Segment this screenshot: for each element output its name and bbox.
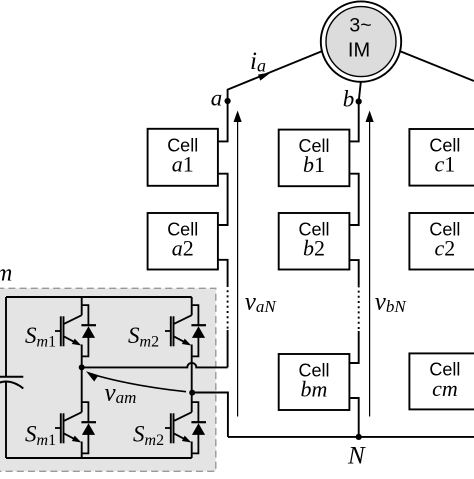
dc rail bottom: [6, 457, 192, 459]
wire b: dotted end to cell bm top: [349, 331, 358, 363]
svg-text:c2: c2: [435, 236, 456, 261]
cell c1: [409, 129, 474, 186]
svg-text:N: N: [347, 443, 366, 470]
arrow v_bN: [366, 111, 374, 417]
wire b: cell b2 bottom, solid: [349, 260, 358, 285]
transistor S_m2 top-right: [165, 305, 206, 356]
cell zoom gray box (Cell am detail): [0, 288, 216, 471]
cell b1: [279, 130, 350, 187]
node: right leg midpoint: [189, 390, 195, 396]
dotted continuation b: [358, 285, 360, 331]
wire b: cell b1 bottom to cell b2 top: [349, 174, 358, 225]
svg-text:a2: a2: [172, 236, 194, 261]
svg-text:b2: b2: [303, 236, 325, 261]
cell cm: [409, 353, 474, 409]
dc rail top: [6, 296, 192, 298]
cell a1: [148, 129, 218, 186]
node N: [356, 434, 362, 440]
svg-text:c1: c1: [435, 152, 456, 177]
svg-text:cm: cm: [432, 376, 458, 401]
right leg verticals: [191, 297, 193, 458]
motor U1: 3-phase induction machine: [321, 1, 401, 81]
dotted continuation a: [227, 285, 229, 330]
wire a: cell a2 bottom, solid then dotted: [218, 260, 228, 285]
wire b: cell bm bottom to node N: [349, 398, 358, 437]
bus wire to node N: [228, 436, 474, 438]
wire b: node b to cell b1 top: [349, 102, 358, 142]
wire a: dotted end down to cell am output: [227, 330, 229, 367]
v_am curved arrow: [86, 371, 186, 391]
svg-text:b1: b1: [303, 152, 325, 177]
wire: lower output to bus: [192, 393, 228, 437]
arrow v_aN: [234, 111, 242, 417]
transistor S_m1 bottom-left: [55, 402, 96, 453]
cell bm: [279, 354, 350, 410]
svg-text:a1: a1: [172, 152, 194, 177]
wire: motor to node b (phase b): [359, 82, 361, 102]
cell a2: [148, 213, 218, 270]
svg-text:IM: IM: [348, 39, 370, 61]
wire: motor to node a (phase a): [228, 51, 322, 100]
transistor S_m2 bottom-right: [165, 402, 206, 453]
svg-text:a: a: [211, 85, 223, 110]
current arrow i_a head: [258, 72, 271, 80]
svg-text:3~: 3~: [349, 14, 371, 36]
svg-text:m: m: [0, 260, 12, 286]
wire a: cell a1 bottom to cell a2 top: [218, 174, 228, 225]
wire: upper output with hop over right leg, to chain a: [82, 363, 228, 367]
cell c2: [409, 213, 474, 270]
cell b2: [279, 213, 350, 270]
left leg verticals: [81, 297, 83, 458]
transistor S_m1 top-left: [55, 305, 96, 356]
svg-text:bm: bm: [301, 377, 328, 402]
svg-text:b: b: [343, 87, 355, 112]
node b: [356, 98, 362, 104]
node a: [225, 98, 231, 104]
dc-link capacitor C: [0, 297, 23, 458]
node: left leg midpoint: [79, 364, 85, 370]
wire: motor to phase c (clipped): [401, 51, 474, 81]
wire a: node a to cell a1 top: [218, 100, 228, 141]
